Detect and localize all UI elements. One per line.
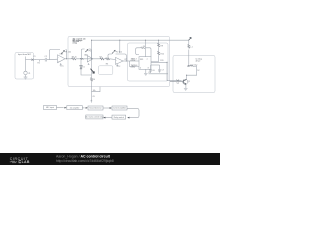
svg-text:Input from MIC: Input from MIC	[18, 53, 32, 56]
svg-text:R3 1k: R3 1k	[72, 57, 77, 59]
svg-text:R5: R5	[100, 57, 102, 59]
svg-text:R6: R6	[106, 64, 108, 66]
svg-text:C5: C5	[148, 72, 150, 74]
svg-text:1st amplifier: 1st amplifier	[70, 106, 80, 109]
svg-text:Q1: Q1	[188, 81, 190, 83]
svg-text:7: 7	[147, 59, 148, 61]
svg-text:1: 1	[140, 68, 141, 70]
svg-text:R4: R4	[93, 79, 95, 81]
svg-text:C1: C1	[33, 56, 35, 58]
svg-text:R7: R7	[125, 59, 127, 61]
svg-text:555: 555	[140, 59, 143, 61]
svg-text:0.33v: 0.33v	[131, 60, 136, 62]
svg-text:C7: C7	[162, 69, 164, 71]
svg-text:OA1: OA1	[60, 53, 64, 56]
svg-text:Relay switch: Relay switch	[114, 116, 124, 119]
svg-text:http://circuitlab.com/c/c7dd66: http://circuitlab.com/c/c7dd66cf/29jkqb8	[56, 159, 114, 163]
svg-text:VCC: VCC	[60, 66, 65, 68]
svg-text:OA2: OA2	[84, 53, 88, 56]
svg-text:P2: P2	[89, 50, 91, 52]
svg-text:AC mains control relay: AC mains control relay	[85, 116, 103, 119]
svg-text:V1: V1	[28, 73, 30, 75]
svg-text:C2: C2	[45, 56, 47, 58]
svg-text:driver: driver	[196, 59, 201, 62]
svg-text:P2 10k: P2 10k	[116, 51, 122, 53]
svg-text:R1: R1	[38, 63, 40, 65]
svg-text:X1: X1	[177, 83, 179, 85]
svg-text:3: 3	[148, 68, 149, 70]
svg-text:P1 10k: P1 10k	[65, 52, 71, 54]
svg-text:C6: C6	[152, 70, 154, 72]
svg-text:D1: D1	[82, 67, 84, 69]
svg-text:Sound detector: Sound detector	[89, 107, 102, 110]
svg-text:R9: R9	[161, 46, 163, 48]
svg-text:10k: 10k	[93, 90, 96, 92]
svg-text:L1: L1	[191, 46, 193, 48]
svg-text:R11: R11	[160, 60, 163, 62]
svg-text:MIC input: MIC input	[46, 106, 54, 109]
svg-text:C4: C4	[143, 46, 145, 48]
svg-text:R10: R10	[161, 54, 164, 56]
svg-text:VCC: VCC	[117, 66, 122, 68]
svg-text:K1 relay: K1 relay	[191, 64, 198, 67]
svg-text:0.66v: 0.66v	[131, 67, 136, 69]
svg-text:Control amplifier: Control amplifier	[113, 107, 126, 110]
